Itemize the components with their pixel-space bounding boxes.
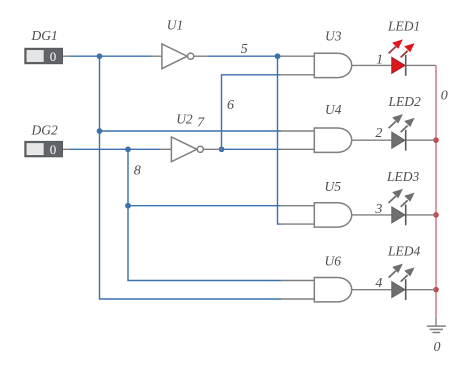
svg-text:U1: U1 — [167, 18, 184, 33]
junction U2 output net 6 — [219, 146, 225, 152]
LED2 (off, gray) — [389, 114, 436, 150]
svg-text:1: 1 — [376, 53, 383, 68]
svg-text:DG2: DG2 — [31, 123, 58, 138]
junction red LED3 — [433, 212, 439, 218]
wire vertical from DG1 junction down to U6 input B row — [100, 56, 282, 299]
svg-text:5: 5 — [241, 42, 248, 57]
svg-text:0: 0 — [434, 340, 441, 355]
svg-text:LED3: LED3 — [386, 169, 420, 184]
junction red LED4 — [433, 287, 439, 293]
svg-text:3: 3 — [374, 202, 382, 217]
svg-text:U2: U2 — [176, 112, 193, 127]
svg-text:8: 8 — [134, 164, 141, 179]
ground — [427, 318, 446, 333]
LED3 (off, gray) — [389, 189, 436, 225]
svg-text:LED1: LED1 — [387, 18, 420, 33]
svg-text:2: 2 — [375, 126, 382, 141]
wire horizontal to U5 input A — [128, 205, 281, 207]
AND gate U6 — [281, 277, 392, 301]
junction red LED2 — [433, 137, 439, 143]
svg-text:DG1: DG1 — [31, 28, 58, 43]
svg-text:0: 0 — [50, 142, 57, 157]
svg-text:0: 0 — [50, 49, 57, 64]
svg-text:LED2: LED2 — [388, 94, 422, 109]
inverter U2 — [160, 137, 222, 162]
wire DG2 to U2 — [70, 148, 161, 150]
wire net 6 vertical from U2 output up to U3 input B — [222, 75, 282, 150]
junction net 5 — [275, 53, 281, 59]
svg-text:7: 7 — [197, 115, 205, 130]
wire net 5 vertical down to U5 input B — [278, 56, 282, 224]
svg-text:4: 4 — [375, 276, 382, 291]
wire net 5: U1 output to U3 input A — [208, 55, 281, 57]
junction DG1 branch to U4 — [97, 128, 103, 134]
inverter U1 — [151, 44, 208, 69]
svg-text:LED4: LED4 — [387, 243, 421, 258]
svg-text:U6: U6 — [325, 254, 342, 269]
svg-text:U3: U3 — [325, 28, 342, 43]
LED4 (off, gray) — [389, 264, 436, 300]
AND gate U5 — [281, 203, 392, 227]
wire net 0 red vertical — [435, 65, 437, 318]
AND gate U3 — [281, 53, 392, 77]
junction net 8 branch to U5 — [125, 203, 131, 209]
wire net 8 vertical from DG2 junction down to U6 input A — [128, 149, 281, 280]
wire net 7: U2 output to U4 input B — [222, 148, 282, 150]
DG1 digital constant — [25, 48, 70, 64]
wire horizontal to U4 input A — [100, 130, 282, 132]
svg-text:6: 6 — [227, 98, 234, 113]
svg-text:U5: U5 — [325, 179, 342, 194]
AND gate U4 — [281, 128, 392, 152]
svg-text:U4: U4 — [325, 102, 342, 117]
junction DG1/U1 — [97, 53, 103, 59]
svg-text:0: 0 — [441, 89, 448, 104]
junction DG2 net 8 — [125, 146, 131, 152]
wire DG1 to U1 (blue) — [70, 55, 152, 57]
LED1 (lit, red) — [389, 39, 436, 75]
DG2 digital constant — [25, 141, 70, 157]
